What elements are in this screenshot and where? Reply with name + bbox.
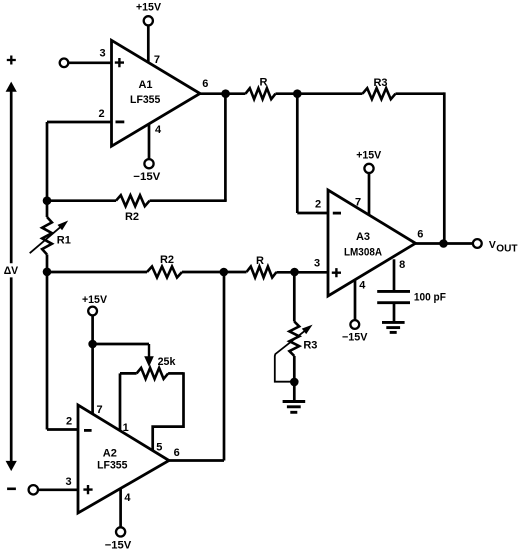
- svg-text:−15V: −15V: [133, 171, 161, 183]
- wire node E to R2 lower: [47, 271, 147, 274]
- svg-text:2: 2: [315, 199, 321, 211]
- variable resistor R1: [30, 201, 71, 272]
- svg-text:3: 3: [99, 48, 105, 60]
- svg-text:1: 1: [123, 422, 129, 434]
- A2 pin 2 label: [66, 416, 72, 428]
- node F junction: [220, 268, 229, 277]
- svg-text:4: 4: [155, 124, 162, 136]
- svg-text:A1: A1: [138, 79, 152, 91]
- A3 pin 3 label: [314, 258, 320, 270]
- ground (capacitor): [382, 322, 405, 332]
- A2 pin 5 label: [156, 442, 162, 454]
- A3 pin 4 label: [359, 280, 366, 292]
- svg-text:+15V: +15V: [136, 2, 162, 14]
- svg-text:5: 5: [156, 442, 162, 454]
- svg-text:R: R: [256, 255, 264, 267]
- svg-text:A3: A3: [356, 231, 370, 243]
- wire A1 output to node B: [200, 92, 246, 95]
- A2 pin 4 label: [124, 492, 131, 504]
- A1 pin 3 label: [99, 48, 105, 60]
- A3 pin 6 label: [417, 229, 423, 241]
- variable resistor R3 (trim): [275, 322, 318, 383]
- svg-text:6: 6: [202, 78, 208, 90]
- resistor R3 (feedback): [363, 77, 396, 99]
- wire R to node C: [276, 92, 363, 95]
- node - input polarity sign: [7, 487, 16, 490]
- wire node C to A3 pin 2: [297, 94, 328, 213]
- A2 pin 3 label: [65, 476, 71, 488]
- svg-text:R2: R2: [160, 254, 174, 266]
- svg-text:LF355: LF355: [97, 460, 127, 472]
- node VOUT junction: [439, 239, 448, 248]
- A2 +15V supply: [82, 294, 108, 414]
- A3 pin 7 label: [355, 196, 361, 208]
- A1 +15V supply: [136, 2, 162, 63]
- svg-text:V: V: [489, 240, 496, 251]
- A2 -15V supply: [105, 489, 132, 551]
- svg-text:6: 6: [174, 447, 180, 459]
- svg-text:ΔV: ΔV: [4, 265, 19, 277]
- A3 +15V supply: [356, 149, 382, 214]
- node H junction: [290, 378, 299, 387]
- svg-text:R3: R3: [373, 77, 387, 89]
- ground (R3): [283, 382, 306, 412]
- node G junction: [290, 268, 299, 277]
- node + input polarity sign: [7, 56, 16, 65]
- resistor R (lower): [247, 255, 277, 278]
- A3 -15V supply: [342, 280, 368, 344]
- svg-text:2: 2: [66, 416, 72, 428]
- resistor R (upper): [246, 77, 276, 100]
- terminal - input of A2: [29, 485, 78, 494]
- differential voltage arrow: [6, 82, 17, 472]
- A3 output wire: [416, 242, 473, 245]
- wire R3 to A3 output node: [396, 92, 445, 243]
- wire A2 output to node F: [169, 272, 224, 461]
- svg-text:3: 3: [314, 258, 320, 270]
- svg-text:+15V: +15V: [82, 294, 108, 306]
- resistor R2 (lower): [147, 254, 182, 278]
- svg-text:7: 7: [96, 404, 102, 416]
- wire A1 pin2 to node D: [47, 122, 112, 201]
- A1 pin 4 label: [155, 124, 162, 136]
- wire R to A3 pin 3: [277, 271, 329, 274]
- wire R2 to node F: [182, 271, 247, 274]
- svg-text:6: 6: [417, 229, 423, 241]
- svg-text:7: 7: [154, 54, 160, 66]
- wire pot right to A2 pin 5: [153, 372, 184, 451]
- svg-text:−15V: −15V: [342, 331, 368, 343]
- svg-text:LM308A: LM308A: [344, 247, 382, 259]
- svg-text:7: 7: [355, 196, 361, 208]
- svg-text:100 pF: 100 pF: [414, 291, 446, 303]
- node E junction: [43, 268, 52, 277]
- svg-text:2: 2: [98, 108, 104, 120]
- terminal VOUT: [473, 239, 518, 255]
- wire node B down to R2: [224, 94, 227, 201]
- op-amp A2: [78, 405, 169, 513]
- svg-text:A2: A2: [103, 448, 117, 460]
- node J junction (pin7/wiper): [88, 340, 97, 349]
- svg-text:OUT: OUT: [496, 244, 518, 255]
- A2 pin 6 label: [174, 447, 180, 459]
- svg-text:+15V: +15V: [356, 149, 382, 161]
- capacitor C1 100 pF: [377, 259, 446, 322]
- svg-text:−15V: −15V: [105, 539, 132, 551]
- node C junction: [293, 89, 302, 98]
- A1 -15V supply: [133, 124, 161, 183]
- wire pot left to A2 pin 1: [119, 373, 122, 430]
- terminal + input of A1: [60, 59, 112, 68]
- A2 pin 7 label: [96, 404, 102, 416]
- A3 pin 2 label: [315, 199, 321, 211]
- svg-text:LF355: LF355: [130, 94, 160, 106]
- A1 pin 7 label: [154, 54, 160, 66]
- node ΔV label: [4, 265, 19, 277]
- wire node E down to A2 pin 2: [47, 272, 78, 430]
- svg-text:25k: 25k: [158, 356, 177, 368]
- svg-text:4: 4: [359, 280, 366, 292]
- node D junction: [43, 196, 52, 205]
- A1 pin 6 label: [202, 78, 208, 90]
- svg-text:R3: R3: [303, 339, 317, 351]
- svg-text:R1: R1: [57, 235, 71, 247]
- A1 pin 2 label: [98, 108, 104, 120]
- A2 pin 1 label: [123, 422, 129, 434]
- op-amp A3: [328, 190, 416, 296]
- svg-text:R: R: [260, 77, 268, 89]
- svg-text:8: 8: [399, 259, 405, 271]
- svg-text:3: 3: [65, 476, 71, 488]
- svg-text:4: 4: [124, 492, 131, 504]
- op-amp A1: [112, 40, 201, 146]
- wire node G down to R3: [293, 272, 296, 322]
- A3 pin 8 label: [399, 259, 405, 271]
- resistor R2 (A1 feedback): [47, 195, 227, 223]
- potentiometer 25k: [120, 356, 184, 379]
- svg-text:R2: R2: [125, 211, 139, 223]
- wire junction J to pot wiper: [93, 344, 154, 367]
- node B junction: [221, 89, 230, 98]
